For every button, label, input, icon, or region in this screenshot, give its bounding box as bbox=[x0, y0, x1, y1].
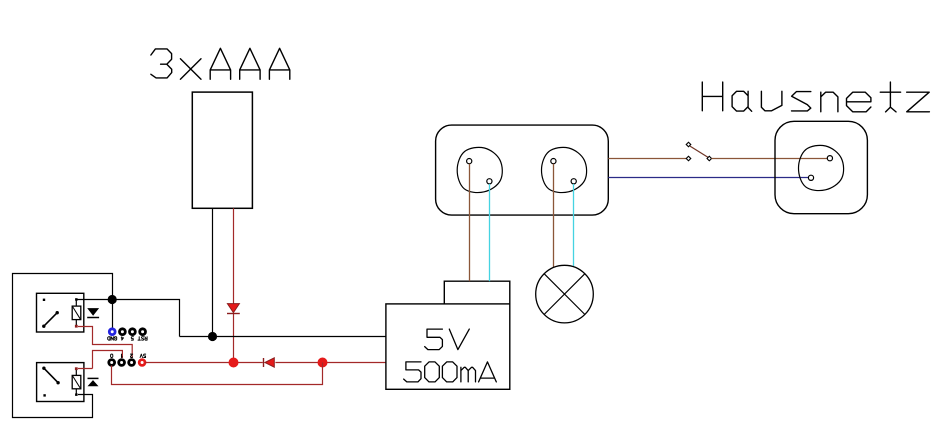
pin labels top row (rotated) bbox=[108, 337, 117, 340]
power strip body bbox=[436, 125, 609, 215]
relay K2 coil bbox=[72, 375, 81, 388]
socket 2 pin N bbox=[571, 179, 576, 184]
relay K2 contact pin bbox=[43, 394, 45, 396]
MCU top pin row (GND 4 5 RST) bbox=[120, 329, 146, 335]
LED D3 (black, cathode up) bbox=[88, 377, 99, 379]
switch S1 lever bbox=[690, 146, 708, 157]
socket 2 pin L bbox=[551, 159, 556, 164]
wire strip L to switch (brown) bbox=[608, 158, 686, 160]
socket 1 outline bbox=[457, 147, 502, 192]
socket 1 pin N bbox=[487, 179, 492, 184]
switch S1 contact right bbox=[707, 156, 712, 161]
socket 2 outline bbox=[541, 147, 586, 192]
node A (red junction) bbox=[229, 358, 239, 368]
relay K2 coil top stub bbox=[75, 369, 77, 376]
wire GND net: junction1 loop to bottom relay coil bbox=[13, 274, 113, 418]
wall socket pin L bbox=[827, 156, 832, 161]
wire relay K1 coil to pin 2 (red) bbox=[78, 327, 132, 359]
relay K1 contact pin bbox=[43, 299, 45, 301]
wire battery minus (black) bbox=[212, 208, 214, 336]
label 5V bbox=[425, 329, 470, 350]
wire socket2 N to lamp (cyan) bbox=[573, 184, 575, 267]
diode D1 (red, cathode down) bbox=[227, 304, 240, 314]
wire socket1 N to plug (cyan) bbox=[489, 184, 491, 281]
wall socket outline bbox=[798, 145, 843, 190]
wire strip N to wall socket N (blue) bbox=[608, 177, 808, 179]
battery 3xAAA pack bbox=[192, 92, 252, 208]
wire socket2 L to lamp (brown) bbox=[553, 164, 555, 268]
LED D2 (black, cathode down) bbox=[87, 308, 99, 316]
relay K1 body bbox=[37, 293, 84, 332]
pin labels bottom row (rotated) bbox=[111, 354, 113, 357]
wall socket body bbox=[775, 121, 867, 213]
power supply 5V 500mA box bbox=[386, 304, 510, 389]
relay K1 coil bottom stub bbox=[75, 320, 77, 327]
power supply plug section bbox=[444, 281, 510, 304]
wire junction1 down to GND pin bbox=[112, 300, 114, 329]
label 3xAAA bbox=[151, 48, 290, 79]
MCU bottom pin row (0 1 2 5V) bbox=[109, 360, 135, 366]
node B (red junction) bbox=[318, 358, 328, 368]
socket 1 pin L bbox=[467, 159, 472, 164]
label 500mA bbox=[404, 362, 497, 382]
relay K1 coil top stub bbox=[75, 299, 77, 306]
relay K2 switch arm bbox=[44, 368, 58, 383]
label Hausnetz bbox=[702, 82, 929, 112]
wire switch to wall socket L (brown) bbox=[711, 158, 827, 160]
pin 5V (red) bbox=[139, 360, 145, 366]
relay K2 coil bottom stub bbox=[75, 389, 77, 395]
wire 5V pin to node A (red bus) bbox=[145, 362, 386, 364]
wire pin 0 return loop (red) bbox=[112, 363, 323, 385]
relay K1 switch arm bbox=[44, 313, 57, 327]
diode D4 (red, cathode left) bbox=[264, 358, 275, 367]
wire battery plus (red) bbox=[233, 208, 235, 362]
switch S1 contact left bbox=[686, 156, 691, 161]
pin GND (blue) bbox=[109, 329, 115, 335]
wire junction1 right then down to junction2 level bbox=[112, 300, 180, 337]
node junction1 bbox=[108, 295, 117, 304]
wire relay K2 coil to pin 1 (red) bbox=[78, 351, 122, 369]
wire junction2 to 5V supply bbox=[180, 336, 386, 338]
wire socket1 L to plug (brown) bbox=[469, 164, 471, 282]
switch S1 pivot contact bbox=[686, 142, 691, 147]
wall socket pin N bbox=[808, 175, 813, 180]
relay K1 coil bbox=[72, 306, 81, 320]
lamp E1 bbox=[536, 265, 594, 323]
relay K2 body bbox=[37, 363, 84, 402]
node junction2 bbox=[208, 332, 217, 341]
